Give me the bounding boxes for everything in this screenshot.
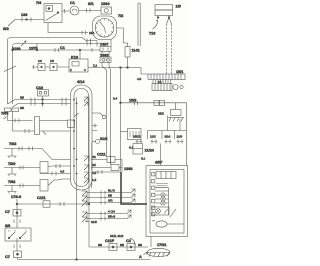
- svg-text:SB: SB: [108, 194, 112, 198]
- label 3196: [12, 41, 26, 51]
- svg-text:SB: SB: [120, 243, 124, 247]
- wire C1 row: [12, 46, 100, 52]
- svg-text:C111: C111: [97, 153, 106, 157]
- wire row0: [1, 112, 75, 135]
- inline box row185: [40, 179, 71, 191]
- svg-text:15A: 15A: [89, 31, 94, 35]
- box 1467: [100, 43, 111, 52]
- svg-text:31/5: 31/5: [91, 220, 97, 224]
- svg-text:4.5: 4.5: [92, 171, 97, 175]
- wire 6R: [93, 170, 121, 174]
- instrument C1: [70, 1, 79, 15]
- wire C11 row: [16, 196, 90, 207]
- svg-text:17S-6: 17S-6: [11, 195, 21, 199]
- svg-text:3/14: 3/14: [165, 135, 171, 139]
- wire 15A: [48, 23, 94, 36]
- box 1492: [100, 53, 111, 62]
- svg-text:31/5, 31/2: 31/5, 31/2: [110, 234, 124, 238]
- wire box to C1: [62, 9, 70, 13]
- big box outer: [146, 161, 188, 237]
- label 17S-6: [11, 195, 21, 228]
- wire to big box: [141, 144, 161, 166]
- svg-text:2.1: 2.1: [93, 64, 98, 68]
- svg-text:C5: C5: [50, 59, 54, 63]
- big box pins: [152, 173, 155, 216]
- label 31/5 31/2: [110, 234, 135, 246]
- svg-text:C7: C7: [5, 210, 10, 214]
- svg-text:6.1: 6.1: [141, 157, 146, 161]
- svg-text:C1: C1: [60, 46, 65, 50]
- svg-text:1492: 1492: [100, 53, 108, 57]
- svg-text:15/2: 15/2: [158, 112, 164, 116]
- duct top: [138, 3, 140, 46]
- connector C11F: [105, 239, 117, 251]
- wire row99: [8, 96, 71, 105]
- wire top feed: [15, 19, 44, 21]
- svg-text:15/12: 15/12: [133, 135, 141, 139]
- wire C111 down: [107, 156, 111, 165]
- svg-text:BR-S: BR-S: [108, 215, 115, 219]
- inline box row167: [40, 162, 52, 174]
- bulb 15/64: [101, 2, 112, 14]
- capsule 4/14: [71, 80, 93, 190]
- box 15/2: [158, 103, 181, 116]
- svg-text:11/2: 11/2: [150, 135, 156, 139]
- connector C5: [50, 59, 57, 71]
- svg-text:7/30: 7/30: [8, 162, 15, 166]
- capsule entry dots: [73, 99, 77, 175]
- capsule wires: [77, 97, 90, 260]
- wire main drop: [113, 68, 121, 172]
- wire 247: [89, 243, 148, 247]
- svg-text:7/32: 7/32: [9, 142, 16, 146]
- big box lamps: [152, 188, 184, 228]
- connector C2: [126, 239, 135, 251]
- ground bus: [18, 258, 151, 260]
- wire 15/3: [121, 99, 187, 131]
- connector C3: [38, 59, 45, 71]
- connector C7b: [5, 251, 22, 259]
- svg-text:S/1: S/1: [88, 2, 94, 6]
- wire 3/9 down: [14, 241, 20, 251]
- svg-text:S/2: S/2: [3, 27, 9, 31]
- resistor 1141: [125, 47, 140, 68]
- wire rail15: [8, 38, 98, 105]
- wire row103: [13, 102, 71, 111]
- stub 92: [84, 97, 106, 131]
- svg-text:1984: 1984: [101, 2, 110, 6]
- svg-text:C3: C3: [38, 59, 42, 63]
- bar 15/1: [148, 70, 185, 80]
- svg-text:SB: SB: [98, 243, 102, 247]
- svg-text:C2: C2: [126, 239, 131, 243]
- thick wire 1396: [121, 172, 147, 204]
- svg-text:11/24: 11/24: [145, 149, 155, 153]
- svg-text:7/2: 7/2: [118, 14, 123, 18]
- jog row1: [42, 149, 71, 160]
- twisted pair: [167, 18, 172, 75]
- wire row173: [40, 170, 71, 176]
- connector 713: [149, 20, 158, 36]
- svg-text:1141: 1141: [132, 49, 140, 53]
- switch 3/9: [5, 224, 31, 241]
- wires right rows: [87, 189, 135, 221]
- wire rail31: [13, 42, 105, 105]
- labels row: [133, 135, 182, 139]
- ground 17/31: [139, 243, 170, 259]
- svg-text:3/9: 3/9: [5, 224, 10, 228]
- svg-text:4 CH: 4 CH: [108, 210, 115, 214]
- svg-text:C1: C1: [70, 1, 75, 5]
- break marks: [4, 66, 16, 72]
- relay K16: [69, 56, 88, 73]
- connector C111: [91, 153, 122, 173]
- connector 1/5: [155, 5, 181, 19]
- arrows capsule: [84, 155, 97, 183]
- wire pair down: [102, 63, 111, 165]
- svg-text:C11F: C11F: [105, 239, 115, 243]
- svg-text:139: 139: [21, 13, 27, 17]
- big box top connector: [156, 172, 176, 186]
- svg-text:17/31: 17/31: [157, 243, 167, 247]
- svg-text:4.5: 4.5: [60, 170, 65, 174]
- svg-text:SB: SB: [20, 106, 24, 110]
- svg-text:1/5: 1/5: [176, 5, 181, 9]
- wire 31/5: [85, 143, 97, 224]
- wire rowB: [13, 112, 71, 134]
- lamp 7/30: [4, 162, 40, 176]
- lamp 7/92: [4, 180, 40, 194]
- svg-text:7/4: 7/4: [36, 1, 42, 5]
- svg-text:8.4: 8.4: [113, 97, 118, 101]
- cell row: [136, 116, 187, 166]
- connector marks: [14, 220, 20, 224]
- clock pins: [97, 40, 111, 47]
- label 1375: [29, 44, 38, 51]
- svg-text:4/14: 4/14: [77, 80, 85, 84]
- connector C7: [5, 210, 21, 217]
- svg-text:SB: SB: [138, 243, 142, 247]
- svg-text:15/3: 15/3: [129, 99, 136, 103]
- connector C10: [36, 86, 49, 107]
- svg-text:1396: 1396: [124, 167, 132, 171]
- lamp 7/32: [4, 142, 42, 158]
- node S/2: [3, 20, 15, 32]
- svg-text:BL-R: BL-R: [108, 189, 116, 193]
- svg-text:7/92: 7/92: [8, 180, 15, 184]
- svg-text:C111: C111: [37, 196, 46, 200]
- wire 1467-1492: [102, 52, 109, 58]
- ground circle 31/6: [92, 137, 107, 144]
- svg-text:4.5: 4.5: [137, 77, 142, 81]
- wire row166: [52, 164, 71, 168]
- bar pins: [152, 80, 183, 91]
- wire C1 to clock: [79, 10, 101, 12]
- connector bar left: [5, 108, 19, 112]
- K16 drop: [79, 50, 81, 59]
- svg-text:4/57: 4/57: [155, 161, 162, 165]
- wire clock to resistor: [117, 28, 128, 47]
- svg-text:1.5: 1.5: [92, 178, 97, 182]
- clock 7/2: [93, 14, 124, 40]
- svg-text:713: 713: [149, 32, 155, 36]
- svg-text:11/6: 11/6: [177, 135, 183, 139]
- wire K16 row: [32, 65, 69, 69]
- svg-text:A: A: [139, 255, 142, 259]
- svg-text:31/6: 31/6: [100, 137, 107, 141]
- connector 139: [21, 13, 31, 22]
- label 11/24: [133, 144, 155, 155]
- connector mark: [87, 9, 91, 13]
- arrows below capsule: [82, 191, 87, 222]
- ground hatch right: [168, 118, 184, 131]
- wire box pin to ground: [150, 237, 152, 248]
- relay box 1357: [121, 129, 142, 150]
- switch box 7/4: [36, 1, 62, 23]
- wire K16 out: [88, 64, 148, 82]
- svg-text:C7: C7: [5, 255, 10, 259]
- svg-text:SB: SB: [20, 96, 24, 100]
- svg-text:15/1: 15/1: [176, 70, 183, 74]
